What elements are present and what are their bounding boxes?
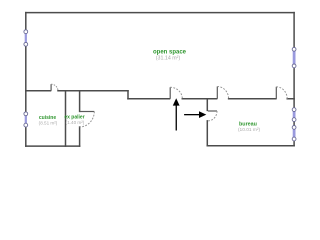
wire bureau left wall <box>206 99 208 146</box>
window W1 left wall upper <box>24 30 28 46</box>
window W3 right wall upper <box>292 47 296 67</box>
wire top outer wall <box>26 12 294 14</box>
door D4 landing to bureau <box>208 111 217 121</box>
door D5 bureau to open space left <box>217 87 228 99</box>
window W5 right wall lower <box>292 126 296 141</box>
wire palier right wall <box>79 91 81 146</box>
wire bottom wall bureau <box>207 145 294 147</box>
wire left outer wall <box>25 13 27 147</box>
door D2 palier to landing <box>80 112 95 128</box>
door D1 cuisine to open space <box>51 84 58 91</box>
svg-text:(8.51 m²): (8.51 m²) <box>39 120 58 125</box>
wire bottom wall cuisine+palier <box>26 145 80 147</box>
door D6 bureau to open space right <box>276 87 287 99</box>
svg-text:(31.14 m²): (31.14 m²) <box>156 56 181 62</box>
svg-text:(10.01 m²): (10.01 m²) <box>238 127 261 133</box>
window W2 left wall lower <box>24 112 28 127</box>
wire palier left wall <box>65 91 67 146</box>
svg-text:(1.40 m²): (1.40 m²) <box>66 120 85 125</box>
door D3 landing to open space <box>170 87 182 99</box>
arrow entrance right <box>184 111 206 118</box>
wire step between horizontals <box>127 91 129 99</box>
window W4 right wall middle <box>292 108 296 122</box>
arrow entrance up <box>173 98 180 130</box>
wire right outer wall <box>293 13 295 146</box>
wire interior wall right horizontal <box>128 98 294 100</box>
wire interior wall left horizontal <box>26 90 128 92</box>
svg-text:bureau: bureau <box>239 122 257 128</box>
